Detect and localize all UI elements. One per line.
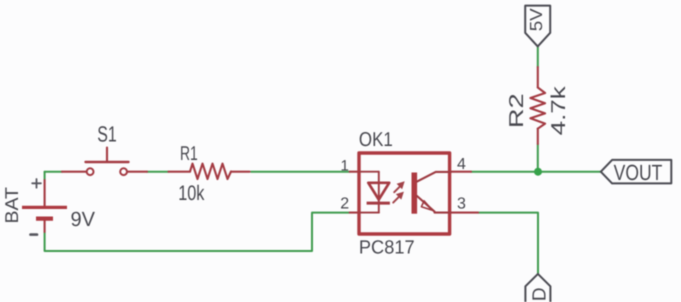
svg-text:R1: R1: [180, 143, 198, 165]
svg-text:3: 3: [457, 195, 466, 212]
svg-text:10k: 10k: [178, 182, 205, 205]
svg-text:1: 1: [341, 157, 349, 174]
svg-text:4: 4: [457, 156, 466, 173]
svg-text:OK1: OK1: [359, 129, 393, 151]
svg-text:PC817: PC817: [359, 238, 415, 259]
svg-text:5V: 5V: [526, 8, 546, 31]
svg-text:R2: R2: [506, 93, 528, 128]
svg-text:BAT: BAT: [1, 187, 22, 224]
svg-text:D: D: [530, 287, 551, 301]
svg-text:2: 2: [340, 196, 349, 213]
svg-text:4.7k: 4.7k: [548, 85, 570, 135]
svg-text:VOUT: VOUT: [614, 160, 663, 185]
svg-text:9V: 9V: [71, 208, 96, 231]
svg-text:S1: S1: [97, 122, 117, 147]
